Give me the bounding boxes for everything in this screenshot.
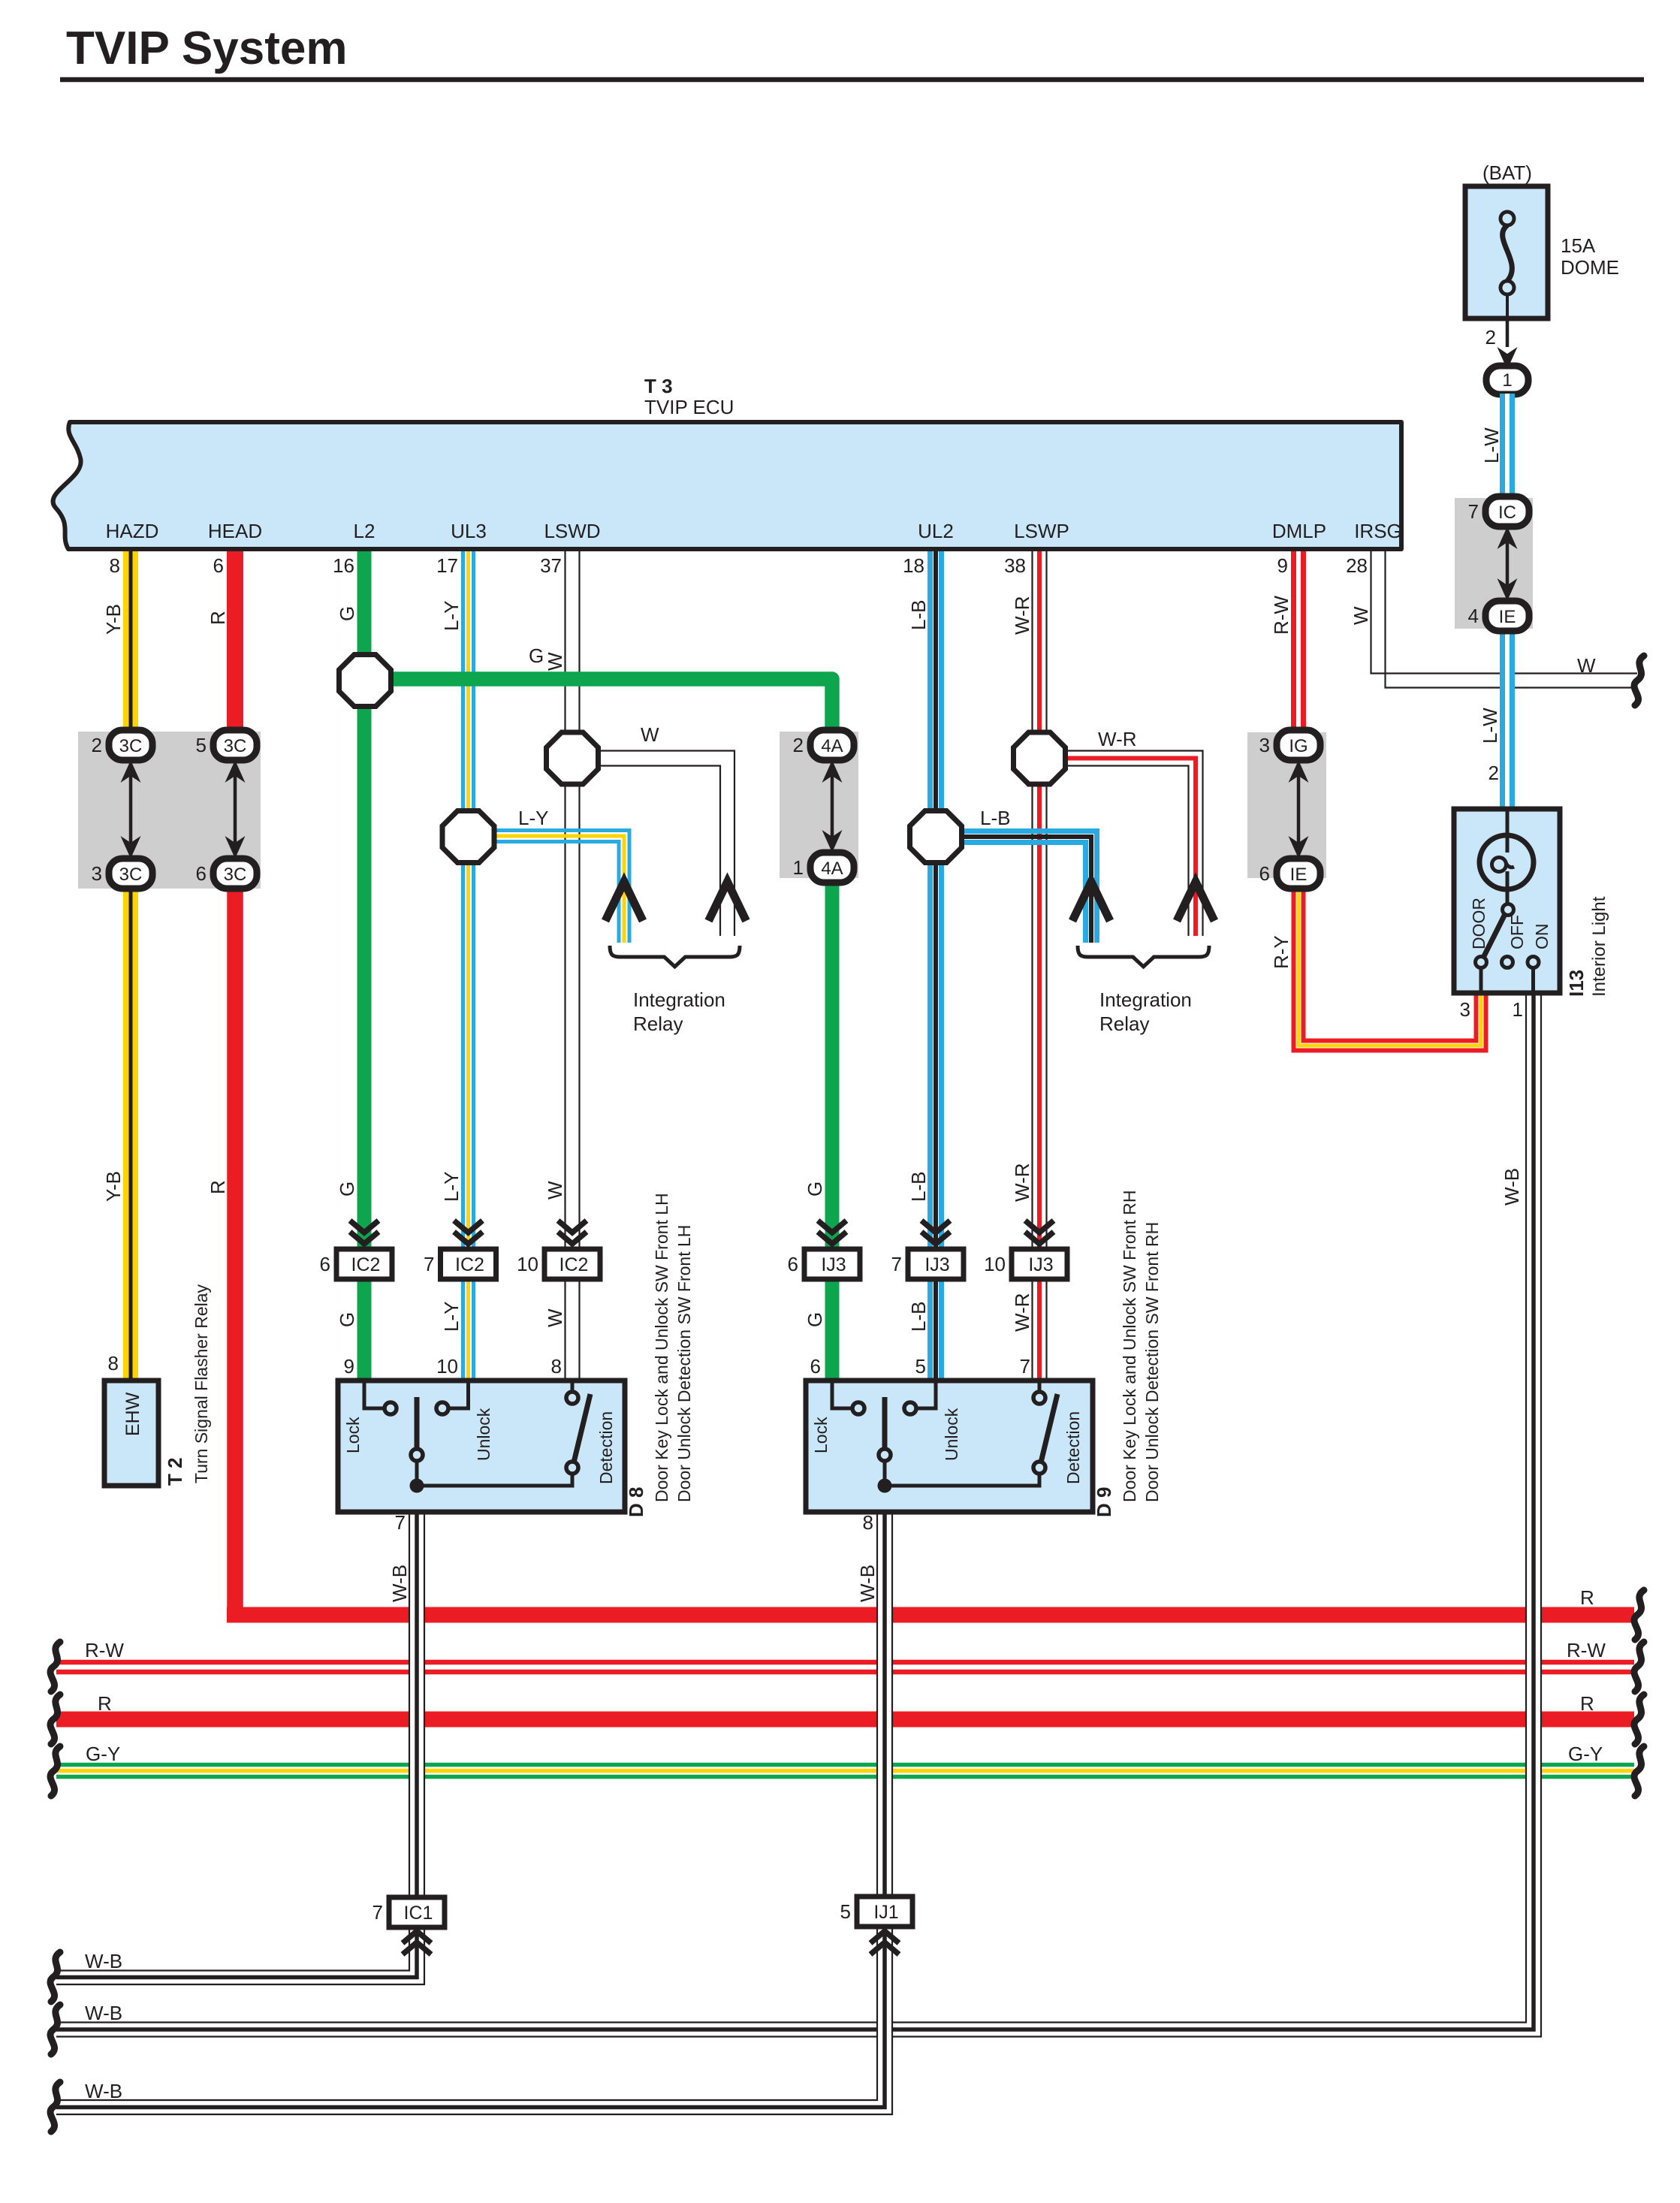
svg-text:R-W: R-W bbox=[1270, 596, 1292, 635]
svg-text:EHW: EHW bbox=[122, 1392, 143, 1436]
connector IJ3 pin 10 box bbox=[1012, 1249, 1067, 1279]
wire W-R from junction to integration relay RH bbox=[1188, 765, 1203, 936]
wire W-B from I13 pin 1 to ground bus bbox=[1525, 993, 1542, 2037]
svg-text:G: G bbox=[336, 1181, 358, 1197]
svg-text:3C: 3C bbox=[119, 736, 143, 756]
svg-text:D 8: D 8 bbox=[625, 1487, 647, 1517]
svg-text:2: 2 bbox=[793, 734, 804, 756]
break symbol right G-Y bus bbox=[1634, 1746, 1644, 1796]
D8 unlock contact wiring bbox=[448, 1383, 469, 1408]
svg-text:W: W bbox=[1577, 654, 1596, 677]
integration relay RH arrow W-R bbox=[1177, 882, 1214, 921]
svg-text:7: 7 bbox=[1468, 500, 1479, 523]
svg-text:I13: I13 bbox=[1565, 970, 1588, 997]
svg-text:6: 6 bbox=[810, 1355, 821, 1378]
connector block 3C (gray) bbox=[78, 732, 261, 889]
svg-text:2: 2 bbox=[1488, 762, 1499, 784]
svg-text:Door Unlock Detection SW Front: Door Unlock Detection SW Front LH bbox=[674, 1225, 694, 1502]
svg-text:38: 38 bbox=[1004, 554, 1026, 577]
svg-text:D 9: D 9 bbox=[1093, 1487, 1115, 1517]
svg-text:L2: L2 bbox=[354, 520, 376, 542]
svg-text:Unlock: Unlock bbox=[942, 1408, 961, 1461]
svg-text:Detection: Detection bbox=[1063, 1411, 1083, 1484]
wire G horizontal from junction to 4A connector bbox=[365, 679, 832, 740]
D8 detection blade bbox=[574, 1394, 590, 1462]
bus wire R (thick red horizontal) bbox=[227, 1607, 1634, 1623]
integration relay LH arrow W bbox=[709, 882, 746, 921]
wire L-Y from junction to integration relay LH bbox=[492, 831, 629, 943]
svg-text:7: 7 bbox=[372, 1901, 383, 1924]
svg-text:Integration: Integration bbox=[1099, 988, 1192, 1011]
svg-text:DOME: DOME bbox=[1561, 256, 1619, 279]
svg-text:8: 8 bbox=[110, 554, 120, 577]
wire W-R from LSWP pin 38 through junction to D9 pin 7 bbox=[1032, 551, 1047, 1381]
wire W-B from D8 pin 7 to ground bus (via IC1) bbox=[409, 1512, 425, 1990]
svg-text:L-Y: L-Y bbox=[440, 1302, 463, 1332]
junction octagon on L2 wire bbox=[339, 655, 391, 707]
arrow between 4A pins 2-1 bbox=[831, 765, 834, 848]
svg-text:2: 2 bbox=[1485, 326, 1496, 349]
svg-text:W: W bbox=[641, 723, 659, 746]
integration relay LH brace bbox=[610, 946, 740, 967]
svg-text:9: 9 bbox=[344, 1355, 354, 1378]
break symbol left R-W bus bbox=[50, 1642, 60, 1691]
svg-text:R-W: R-W bbox=[85, 1639, 124, 1661]
svg-text:3: 3 bbox=[92, 862, 102, 885]
connector IE pin 6 oval bbox=[1277, 859, 1320, 889]
svg-text:Detection: Detection bbox=[596, 1411, 616, 1484]
D9 unlock contact wiring bbox=[916, 1383, 936, 1408]
svg-text:9: 9 bbox=[1277, 554, 1288, 577]
svg-text:1: 1 bbox=[793, 856, 804, 879]
svg-text:3: 3 bbox=[1259, 734, 1270, 756]
break symbol right W (IRSG) bbox=[1634, 656, 1644, 705]
svg-text:G: G bbox=[804, 1181, 826, 1197]
ON contact bbox=[1528, 957, 1539, 968]
arrow between IG-IE bbox=[1297, 765, 1301, 854]
svg-text:L-B: L-B bbox=[907, 1302, 930, 1332]
svg-text:L-W: L-W bbox=[1480, 427, 1503, 463]
wire L-W from junction 1 to IC bbox=[1500, 394, 1515, 498]
integration relay RH brace bbox=[1078, 946, 1209, 967]
junction octagon on LSWD wire bbox=[547, 732, 599, 784]
connector IC2 pin 7 chevrons bbox=[454, 1221, 483, 1233]
svg-text:G-Y: G-Y bbox=[1568, 1743, 1603, 1765]
svg-text:L-Y: L-Y bbox=[440, 601, 463, 631]
svg-text:Y-B: Y-B bbox=[102, 1171, 125, 1202]
svg-text:IC2: IC2 bbox=[351, 1254, 381, 1275]
svg-text:IE: IE bbox=[1290, 865, 1308, 885]
svg-text:W-B: W-B bbox=[85, 1950, 122, 1972]
connector IC1 box bbox=[389, 1897, 445, 1927]
svg-text:IJ3: IJ3 bbox=[821, 1254, 846, 1275]
svg-text:8: 8 bbox=[863, 1511, 873, 1534]
svg-text:R-W: R-W bbox=[1567, 1639, 1606, 1661]
svg-text:7: 7 bbox=[424, 1253, 434, 1275]
arrow between 3C pins 2-3 bbox=[129, 765, 133, 854]
wire R-Y from IE connector to I13 pin 3 bbox=[1294, 870, 1486, 1051]
svg-text:Relay: Relay bbox=[1099, 1012, 1149, 1035]
svg-text:8: 8 bbox=[551, 1355, 562, 1378]
connector IJ3 pin 7 chevrons bbox=[921, 1221, 950, 1233]
svg-text:IRSG: IRSG bbox=[1354, 520, 1402, 542]
svg-text:G: G bbox=[336, 606, 358, 621]
wire Y-B from 3C to EHW relay bbox=[123, 870, 138, 1381]
connector IE pin 4 oval bbox=[1485, 601, 1529, 631]
break symbol left R bus bbox=[50, 1694, 60, 1744]
svg-text:W-B: W-B bbox=[85, 2002, 122, 2024]
svg-text:W: W bbox=[544, 1308, 566, 1327]
svg-text:IC1: IC1 bbox=[404, 1903, 433, 1924]
svg-text:IG: IG bbox=[1289, 736, 1308, 756]
wire L-B from junction to integration relay RH bbox=[961, 831, 1097, 943]
wire L-B from UL2 pin 18 through junction to D9 pin 5 bbox=[927, 551, 933, 1381]
svg-text:W-R: W-R bbox=[1011, 1163, 1033, 1202]
junction oval 1 bbox=[1486, 366, 1528, 394]
break symbol right R lower bus bbox=[1634, 1694, 1644, 1744]
svg-text:Door Unlock Detection SW Front: Door Unlock Detection SW Front RH bbox=[1142, 1222, 1162, 1502]
svg-text:Lock: Lock bbox=[343, 1417, 363, 1453]
svg-text:W-B: W-B bbox=[856, 1565, 879, 1602]
break symbol left G-Y bus bbox=[50, 1746, 60, 1796]
svg-text:W: W bbox=[544, 1181, 566, 1200]
svg-text:R: R bbox=[207, 611, 229, 625]
wire L-W from IE to I13 pin 2 bbox=[1500, 629, 1515, 809]
svg-text:6: 6 bbox=[788, 1253, 798, 1275]
junction octagon on LSWP wire bbox=[1014, 732, 1066, 784]
svg-text:6: 6 bbox=[1259, 862, 1270, 885]
break symbol right R-W bus bbox=[1634, 1642, 1644, 1691]
connector 3C pin 3 oval bbox=[109, 859, 152, 889]
svg-text:6: 6 bbox=[196, 862, 207, 885]
svg-text:G: G bbox=[804, 1312, 826, 1327]
break symbol left W-B bus 3 bbox=[50, 2082, 60, 2132]
DOOR contact wire to pin 3 bbox=[1479, 967, 1483, 991]
svg-text:8: 8 bbox=[108, 1352, 119, 1375]
connector 3C pin 2 oval bbox=[109, 730, 152, 760]
wire from fuse to junction 1 bbox=[1506, 318, 1510, 347]
svg-text:R: R bbox=[1580, 1692, 1594, 1715]
svg-text:W: W bbox=[1350, 606, 1372, 625]
connector IC pin 7 oval bbox=[1485, 496, 1529, 527]
fuse 15A DOME box bbox=[1465, 186, 1548, 318]
D9 common pole and switch blade bbox=[882, 1397, 888, 1449]
wire R from HEAD pin 6 to 3C bbox=[227, 551, 243, 740]
svg-text:IJ3: IJ3 bbox=[924, 1254, 949, 1275]
svg-text:L-Y: L-Y bbox=[518, 807, 548, 829]
connector IJ3 pin 6 chevrons bbox=[818, 1221, 846, 1233]
connector block IC/IE (gray) bbox=[1455, 498, 1533, 629]
svg-text:3: 3 bbox=[1460, 998, 1470, 1021]
svg-text:IJ1: IJ1 bbox=[873, 1902, 898, 1923]
svg-text:UL3: UL3 bbox=[451, 520, 487, 542]
wire W from LSWD pin 37 through junction to D8 pin 8 bbox=[565, 551, 580, 1381]
connector 4A pin 2 oval bbox=[810, 730, 854, 760]
lamp to switch pivot bbox=[1506, 871, 1510, 904]
wire L-Y from UL3 pin 17 through junction to D8 pin 10 bbox=[461, 551, 475, 1381]
svg-text:IC2: IC2 bbox=[559, 1254, 589, 1275]
wire W from IRSG pin 28 to right break bbox=[1371, 551, 1386, 674]
arrow between IC-IE bbox=[1506, 531, 1510, 596]
connector IJ3 pin 7 box bbox=[908, 1249, 964, 1279]
relay box EHW (T2 Turn Signal Flasher Relay) bbox=[104, 1381, 158, 1486]
svg-text:(BAT): (BAT) bbox=[1482, 161, 1532, 184]
svg-text:R: R bbox=[98, 1692, 112, 1715]
interior light box I13 bbox=[1454, 809, 1560, 993]
svg-text:4A: 4A bbox=[821, 859, 843, 879]
svg-text:5: 5 bbox=[915, 1355, 926, 1378]
integration relay RH arrow L-B bbox=[1072, 882, 1110, 921]
fuse element bbox=[1501, 212, 1514, 225]
svg-text:OFF: OFF bbox=[1507, 915, 1527, 949]
switch lever to DOOR bbox=[1483, 914, 1505, 958]
svg-text:DOOR: DOOR bbox=[1469, 898, 1488, 949]
svg-text:L-Y: L-Y bbox=[440, 1172, 463, 1202]
wire G from 4A to D9 pin 6 bbox=[825, 870, 840, 1381]
connector 4A pin 1 oval bbox=[810, 853, 854, 883]
svg-text:28: 28 bbox=[1346, 554, 1368, 577]
title underline bbox=[60, 77, 1644, 83]
svg-text:3C: 3C bbox=[224, 736, 247, 756]
connector IJ3 pin 10 chevrons bbox=[1025, 1221, 1054, 1233]
svg-text:G: G bbox=[529, 644, 544, 667]
D9 junction dot bbox=[878, 1479, 892, 1493]
svg-text:R: R bbox=[1580, 1586, 1594, 1609]
svg-text:HEAD: HEAD bbox=[208, 520, 262, 542]
svg-text:1: 1 bbox=[1513, 998, 1523, 1021]
svg-text:37: 37 bbox=[540, 554, 562, 577]
svg-text:4A: 4A bbox=[821, 736, 843, 756]
D9 lock contact wiring bbox=[832, 1383, 852, 1408]
lamp bulb bbox=[1479, 835, 1534, 889]
connector IC2 pin 10 box bbox=[544, 1249, 600, 1279]
junction octagon on UL3 wire bbox=[442, 811, 494, 863]
svg-text:16: 16 bbox=[333, 554, 354, 577]
svg-text:LSWP: LSWP bbox=[1014, 520, 1069, 542]
svg-text:L-B: L-B bbox=[907, 1172, 930, 1202]
svg-text:18: 18 bbox=[903, 554, 924, 577]
wire Y-B from HAZD pin 8 to 3C bbox=[123, 551, 138, 740]
lamp filament bbox=[1492, 858, 1507, 872]
svg-text:IE: IE bbox=[1499, 607, 1516, 627]
break symbol left W-B bus 2 bbox=[50, 2005, 60, 2054]
wire W-B from D9 pin 8 to ground bus (via IJ1) bbox=[876, 1512, 893, 2114]
wire R from 3C down to bottom R bus corner bbox=[227, 870, 243, 1615]
junction octagon on UL2 wire bbox=[910, 811, 962, 863]
svg-text:G: G bbox=[336, 1312, 358, 1327]
connector block IG/IE (gray) bbox=[1247, 732, 1326, 878]
DOOR contact bbox=[1476, 957, 1487, 968]
connector block 4A (gray) bbox=[780, 732, 858, 878]
svg-text:W-R: W-R bbox=[1011, 1293, 1033, 1332]
svg-text:4: 4 bbox=[1468, 605, 1479, 627]
wire G from L2 pin 16 through junction to D8 pin 9 bbox=[357, 551, 372, 1381]
svg-text:UL2: UL2 bbox=[918, 520, 954, 542]
svg-text:LSWD: LSWD bbox=[544, 520, 600, 542]
svg-text:10: 10 bbox=[517, 1253, 538, 1275]
svg-text:Interior Light: Interior Light bbox=[1589, 896, 1609, 997]
svg-text:6: 6 bbox=[320, 1253, 330, 1275]
svg-text:15A: 15A bbox=[1561, 234, 1596, 257]
svg-text:G-Y: G-Y bbox=[86, 1743, 120, 1765]
bus wire R-W (double red) bbox=[56, 1660, 1634, 1665]
connector IC1 chevrons bbox=[403, 1931, 431, 1943]
svg-text:R-Y: R-Y bbox=[1270, 935, 1292, 969]
svg-text:10: 10 bbox=[436, 1355, 458, 1378]
arrow between 3C pins 5-6 bbox=[234, 765, 237, 854]
svg-text:7: 7 bbox=[891, 1253, 902, 1275]
lamp wiring top bbox=[1506, 811, 1510, 835]
svg-text:Integration: Integration bbox=[633, 988, 725, 1011]
svg-text:L-B: L-B bbox=[980, 807, 1010, 829]
arrow into junction 1 bbox=[1498, 347, 1518, 370]
connector IJ3 pin 6 box bbox=[804, 1249, 860, 1279]
svg-text:HAZD: HAZD bbox=[106, 520, 159, 542]
svg-text:L-B: L-B bbox=[907, 600, 930, 630]
svg-text:W-B: W-B bbox=[388, 1565, 411, 1602]
svg-text:2: 2 bbox=[92, 734, 102, 756]
svg-text:5: 5 bbox=[196, 734, 207, 756]
svg-text:3C: 3C bbox=[119, 865, 143, 885]
svg-text:T 3: T 3 bbox=[644, 375, 673, 397]
D9 detection wiring bbox=[885, 1474, 1039, 1486]
svg-text:L-W: L-W bbox=[1479, 708, 1501, 744]
connector 3C pin 6 oval bbox=[213, 859, 257, 889]
svg-text:TVIP ECU: TVIP ECU bbox=[644, 396, 734, 418]
switch box D9 Door Key Lock RH bbox=[806, 1381, 1093, 1512]
ON contact wire to pin 1 bbox=[1531, 967, 1535, 991]
svg-text:ON: ON bbox=[1532, 924, 1552, 950]
break symbol left W-B bus 1 bbox=[50, 1952, 60, 2002]
D8 common pole and switch blade bbox=[415, 1397, 420, 1449]
svg-text:DMLP: DMLP bbox=[1272, 520, 1326, 542]
svg-text:Y-B: Y-B bbox=[102, 604, 125, 635]
connector IC2 pin 6 chevrons bbox=[350, 1221, 379, 1233]
switch box D8 Door Key Lock LH bbox=[338, 1381, 625, 1512]
svg-text:Relay: Relay bbox=[633, 1012, 683, 1035]
svg-text:T 2: T 2 bbox=[164, 1457, 186, 1486]
svg-text:10: 10 bbox=[984, 1253, 1006, 1275]
svg-text:W-R: W-R bbox=[1098, 728, 1137, 750]
OFF contact bbox=[1502, 957, 1513, 968]
svg-text:IC: IC bbox=[1498, 502, 1516, 523]
connector IJ1 box bbox=[857, 1897, 912, 1927]
bus wire G-Y (green-yellow-green) bbox=[56, 1763, 1634, 1767]
svg-text:W-B: W-B bbox=[85, 2080, 122, 2102]
svg-text:3C: 3C bbox=[224, 865, 247, 885]
svg-text:6: 6 bbox=[213, 554, 224, 577]
svg-text:W-R: W-R bbox=[1011, 596, 1033, 635]
connector IG pin 3 oval bbox=[1277, 730, 1320, 760]
svg-text:IC2: IC2 bbox=[455, 1254, 484, 1275]
svg-text:R: R bbox=[207, 1180, 229, 1194]
D8 junction dot bbox=[410, 1479, 424, 1493]
svg-text:17: 17 bbox=[436, 554, 458, 577]
connector 3C pin 5 oval bbox=[213, 730, 257, 760]
svg-text:Unlock: Unlock bbox=[474, 1408, 493, 1461]
svg-text:7: 7 bbox=[395, 1511, 406, 1534]
connector IC2 pin 10 chevrons bbox=[558, 1221, 587, 1233]
bus wire R lower (thick red) bbox=[56, 1712, 1634, 1728]
D9 detection blade bbox=[1041, 1394, 1057, 1462]
ECU box T3 (TVIP ECU) bbox=[53, 422, 1401, 549]
break symbol right R bus bbox=[1634, 1590, 1644, 1640]
integration relay LH arrow L-Y bbox=[605, 882, 643, 921]
svg-text:7: 7 bbox=[1020, 1355, 1030, 1378]
svg-text:5: 5 bbox=[840, 1900, 851, 1923]
svg-text:1: 1 bbox=[1502, 370, 1512, 391]
D8 lock contact wiring bbox=[364, 1383, 385, 1408]
svg-text:Lock: Lock bbox=[811, 1417, 831, 1453]
svg-text:Door Key Lock and Unlock SW Fr: Door Key Lock and Unlock SW Front LH bbox=[652, 1193, 671, 1502]
connector IC2 pin 7 box bbox=[441, 1249, 496, 1279]
D8 detection wiring bbox=[417, 1474, 572, 1486]
wire W from junction to integration relay LH bbox=[720, 765, 735, 936]
svg-text:W: W bbox=[544, 652, 566, 671]
connector IC2 pin 6 box bbox=[336, 1249, 392, 1279]
wire R-W from DMLP pin 9 to IG bbox=[1291, 551, 1306, 740]
svg-text:Door Key Lock and Unlock SW Fr: Door Key Lock and Unlock SW Front RH bbox=[1120, 1191, 1139, 1502]
svg-text:IJ3: IJ3 bbox=[1028, 1254, 1053, 1275]
svg-text:W-B: W-B bbox=[1501, 1168, 1523, 1206]
svg-text:Turn Signal Flasher Relay: Turn Signal Flasher Relay bbox=[192, 1284, 211, 1483]
connector IJ1 chevrons bbox=[870, 1931, 899, 1943]
svg-text:TVIP System: TVIP System bbox=[66, 23, 347, 74]
